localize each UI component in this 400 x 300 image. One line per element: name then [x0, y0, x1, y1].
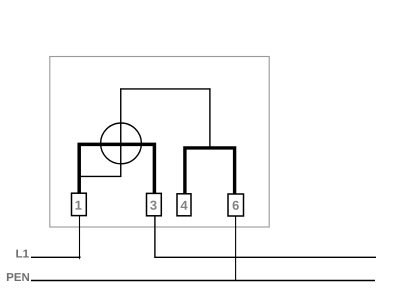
wire: terminal 1 down to L1: [79, 216, 81, 258]
terminal 1: [72, 193, 87, 215]
meter enclosure: [50, 57, 269, 228]
current coil / measuring element (circle): [101, 123, 142, 164]
node L1 label: [16, 250, 28, 258]
node PEN label: [7, 273, 29, 281]
wire: terminal 6 down to PEN: [235, 216, 237, 281]
terminal 6: [228, 194, 244, 216]
pin number 4: [181, 201, 188, 210]
wire: voltage coil right vertical down to 4-6 bridge: [209, 88, 211, 147]
pin number 1: [76, 201, 82, 210]
wire: terminal 3 down and L1 outgoing line: [155, 216, 376, 257]
wire: L1 incoming line: [31, 256, 80, 258]
wire: PEN line: [31, 280, 375, 282]
arrowhead at L1 junction: [78, 257, 81, 260]
terminal 3: [147, 193, 162, 215]
pin number 6: [233, 201, 239, 210]
terminal 4: [177, 194, 191, 216]
wire: thick bridge terminal 4 to terminal 6: [185, 148, 235, 195]
wire: voltage coil top horizontal: [120, 88, 211, 90]
wire: voltage coil vertical through circle: [120, 88, 122, 176]
pin number 3: [150, 201, 156, 210]
wire: voltage tap from L1 conductor (thin horizontal): [79, 175, 121, 177]
wire: thick current path terminal 1 to terminal 3: [79, 144, 154, 194]
